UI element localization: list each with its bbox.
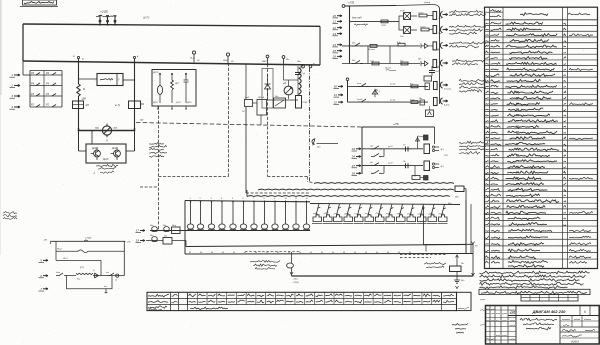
terminal 33 xyxy=(352,147,362,151)
svg-text:дму тмб: дму тмб xyxy=(352,17,362,20)
terminal 37 xyxy=(352,164,362,168)
contact S6 xyxy=(370,162,382,165)
svg-text:блок2: блок2 xyxy=(357,99,363,101)
svg-text:R: R xyxy=(83,87,85,91)
svg-text:(R25): (R25) xyxy=(294,282,299,284)
svg-text:24м: 24м xyxy=(454,196,459,199)
wire row 6 cont xyxy=(66,275,124,277)
connector bar X7 xyxy=(434,98,438,106)
relay box A4 xyxy=(274,95,286,108)
wire return rail xyxy=(186,241,466,247)
svg-text:ю-7у: ю-7у xyxy=(115,105,121,107)
wire coil tail xyxy=(298,94,300,96)
svg-text:(ПУ): (ПУ) xyxy=(80,267,84,269)
connector bar X4 xyxy=(428,42,437,50)
connector bar X1 xyxy=(296,96,309,109)
svg-text:Ш24: Ш24 xyxy=(223,59,228,62)
svg-text:+ПВ: +ПВ xyxy=(43,240,48,242)
svg-text:24в: 24в xyxy=(418,97,422,100)
svg-text:Дп2: Дп2 xyxy=(111,148,117,150)
note box "по 286 включая" xyxy=(20,0,58,7)
wire vertical branch 2 xyxy=(134,62,136,129)
filter block B1 xyxy=(152,70,196,110)
annotation: near 4- xyxy=(444,155,448,157)
svg-text:НО: НО xyxy=(95,127,99,130)
wire row 38 join xyxy=(371,166,384,174)
annotation: set on current xyxy=(424,263,446,268)
node +27V xyxy=(96,10,117,26)
wire bus to cluster xyxy=(23,61,30,75)
svg-text:+27В: +27В xyxy=(348,1,354,5)
svg-text:боч: боч xyxy=(104,286,107,288)
wire row 33 xyxy=(362,148,423,150)
connector out 3 xyxy=(436,42,448,52)
signature scribble xyxy=(452,324,468,334)
svg-text:32: 32 xyxy=(334,100,338,104)
amplifier block U1 xyxy=(79,74,135,86)
label wire dash xyxy=(143,16,150,20)
svg-text:ри-17: ри-17 xyxy=(387,146,394,148)
diode D3 xyxy=(417,58,428,66)
contact K10 xyxy=(106,272,114,276)
label under amplifier xyxy=(93,165,118,175)
block B3 xyxy=(253,96,267,115)
wire line 2 with bump xyxy=(56,249,124,253)
block A6 below xyxy=(426,106,434,117)
svg-text:ри-13: ри-13 xyxy=(389,84,396,86)
terminal 21 xyxy=(332,20,342,24)
wire row 24 xyxy=(342,45,420,47)
terminal 20 xyxy=(332,14,342,18)
wire row 26 xyxy=(342,63,420,65)
contact S4 xyxy=(357,99,369,102)
connector bar X3 xyxy=(429,26,437,34)
connector bar X6 xyxy=(434,82,438,90)
svg-text:24дн: 24дн xyxy=(293,278,299,281)
svg-text:ДВИГАМ 462 230: ДВИГАМ 462 230 xyxy=(532,309,566,314)
svg-text:А2б/1: А2б/1 xyxy=(570,340,579,344)
resistor R12 xyxy=(420,27,429,31)
svg-text:Сф: Сф xyxy=(302,72,306,75)
svg-text:РУ4Т: РУ4Т xyxy=(303,101,309,104)
connector bar X2 xyxy=(427,12,437,20)
svg-text:24 ртд: 24 ртд xyxy=(367,48,376,51)
block A5 xyxy=(424,76,432,81)
svg-text:НЧ-1: НЧ-1 xyxy=(63,258,68,260)
wire box lower xyxy=(67,276,113,289)
terminal 6 xyxy=(39,274,49,278)
relay block A8 xyxy=(424,161,430,171)
svg-text:+ПВ: +ПВ xyxy=(127,242,132,244)
resistor R16 xyxy=(400,61,408,65)
contact K8 xyxy=(287,252,294,268)
wire cluster risers xyxy=(268,65,299,101)
diode riser D7 xyxy=(416,135,429,149)
annotation: switch on generator xyxy=(449,10,486,15)
connector out 5 xyxy=(440,82,451,91)
diode D9 xyxy=(92,270,99,278)
annotation: set current step xyxy=(452,59,485,65)
terminal 32 xyxy=(334,100,344,104)
meter M1 xyxy=(283,80,293,99)
ground xyxy=(454,272,465,289)
diode riser D8 xyxy=(412,166,428,180)
winding wire 2 (wavy) xyxy=(258,188,454,191)
component C7 xyxy=(104,286,108,293)
connector out 1 xyxy=(438,11,448,20)
terminal 17 xyxy=(136,229,146,233)
node Ш3 xyxy=(262,55,269,64)
wire row 18 xyxy=(146,240,186,242)
connector pair out 7 xyxy=(432,146,444,152)
dashed pickup lines xyxy=(245,252,447,258)
wire row 5 xyxy=(56,241,101,275)
title block xyxy=(486,306,600,345)
resistor R18 xyxy=(410,98,418,103)
capacitor C4 xyxy=(401,144,412,151)
relay K3 (lower) xyxy=(400,27,411,39)
node: +27V terminal top right xyxy=(338,5,345,8)
node a (bus terminal) xyxy=(73,55,84,62)
connector out 2 xyxy=(438,26,448,35)
node Ш2 xyxy=(223,53,234,63)
relay block A7 xyxy=(424,144,430,154)
svg-text:37: 37 xyxy=(352,164,356,168)
svg-text:мА: мА xyxy=(283,82,287,85)
svg-text:24г: 24г xyxy=(460,262,464,265)
diode D1 with box xyxy=(262,69,273,109)
svg-text:ри-17: ри-17 xyxy=(387,163,394,165)
wire: dashed jog y176.5 xyxy=(159,176,229,178)
label ri13b xyxy=(389,99,396,101)
wire sub top xyxy=(424,206,475,245)
margin stamp marks xyxy=(480,299,485,325)
wire +27V top right xyxy=(345,1,440,9)
svg-text:33: 33 xyxy=(352,147,356,151)
amplifier A3 xyxy=(86,144,126,163)
wire: long dashed control line PU xyxy=(136,119,362,127)
wire: left edge vertical xyxy=(22,24,24,61)
edge streaks xyxy=(0,0,2,255)
svg-text:ДПФ: ДПФ xyxy=(152,101,158,104)
svg-text:24в: 24в xyxy=(509,310,516,314)
terminal 7 xyxy=(39,287,49,291)
wire row 32 xyxy=(348,101,429,103)
wire vertical branch 1 xyxy=(78,62,80,129)
contact S5 xyxy=(370,145,382,148)
svg-text:31: 31 xyxy=(334,93,338,97)
resistor R10 xyxy=(381,20,388,27)
svg-text:26: 26 xyxy=(332,55,337,59)
connector out 6 xyxy=(440,98,449,107)
terminal 24 xyxy=(332,43,342,47)
capacitor C3 xyxy=(429,66,440,76)
svg-text:4(-): 4(-) xyxy=(441,148,444,151)
wire winding joins xyxy=(247,190,258,197)
terminal 3 xyxy=(10,94,21,98)
terminal 31 xyxy=(334,93,344,97)
resistor R21 xyxy=(450,255,465,272)
terminal 23 xyxy=(332,32,342,36)
terminal 25 xyxy=(332,49,342,53)
svg-text:Пв: Пв xyxy=(403,161,405,163)
annotation small left xyxy=(3,212,17,220)
capacitor C5 xyxy=(403,161,408,168)
svg-text:24: 24 xyxy=(332,43,337,47)
notes text block xyxy=(479,271,590,294)
winding L2 coil xyxy=(299,66,303,94)
diode pair D4 xyxy=(372,89,380,98)
svg-text:щ: щ xyxy=(313,63,315,65)
wire: right edge of outer loop xyxy=(319,26,321,65)
svg-text:ДпФ: ДпФ xyxy=(244,96,250,99)
wire row 34 join xyxy=(371,149,384,157)
svg-text:дбов: дбов xyxy=(56,271,60,274)
wire: dashed jog right group xyxy=(268,177,308,183)
terminal 30 xyxy=(334,85,344,89)
terminal 5 xyxy=(39,259,49,263)
svg-text:17: 17 xyxy=(136,229,140,233)
relay A1 xyxy=(73,101,89,109)
wire right edge sub2 xyxy=(51,241,125,275)
svg-text:4П: 4П xyxy=(86,103,89,107)
wire: dash-dot control riser xyxy=(310,68,315,183)
wire galvanometer to amplifier xyxy=(79,131,122,167)
resistor R22 (PU) xyxy=(76,267,93,281)
terminal 34 xyxy=(352,155,362,159)
annotation: release amplifier xyxy=(149,143,167,158)
svg-text:34: 34 xyxy=(352,155,356,159)
contact K7 xyxy=(149,234,157,241)
svg-text:6: 6 xyxy=(584,310,586,314)
contact S1 xyxy=(351,42,363,46)
wire bottom of branch xyxy=(79,128,135,131)
contact S3 xyxy=(357,83,369,86)
wire: left rail top right xyxy=(345,6,350,64)
label CM xyxy=(81,98,87,101)
band bottom rail with dots xyxy=(185,252,473,254)
wire: dashed jog y187 xyxy=(140,186,159,188)
continuation mini grid xyxy=(521,295,578,302)
svg-text:НЗ: НЗ xyxy=(114,127,118,130)
svg-text:с(два): с(два) xyxy=(424,1,430,4)
winding wire 3 (wavy) xyxy=(247,195,450,198)
terminal 26 xyxy=(332,55,342,59)
annotation: row2 xyxy=(449,25,486,34)
label ri13 xyxy=(389,84,396,86)
pickup contact P2 xyxy=(312,138,338,148)
resistor R13 xyxy=(367,45,377,51)
wire row 37 xyxy=(362,165,423,167)
svg-text:ДПТ: ДПТ xyxy=(174,83,180,85)
svg-text:П: П xyxy=(106,140,108,143)
diode D2 xyxy=(421,43,428,48)
wire: right connector rail xyxy=(439,9,441,105)
label 24M xyxy=(447,196,459,206)
wire: dashed vertical riser 2 xyxy=(267,64,269,177)
relay A2 xyxy=(115,101,144,109)
svg-text:2: 2 xyxy=(10,84,13,88)
node Ш5 xyxy=(297,61,315,68)
annotation: output signals group xyxy=(459,141,488,154)
svg-text:Пв: Пв xyxy=(403,144,405,146)
svg-text:24щ: 24щ xyxy=(171,224,176,227)
node Ш1 xyxy=(190,51,200,62)
wire box verticals 24-26 xyxy=(368,46,390,64)
svg-text:20: 20 xyxy=(332,14,337,18)
contact K6 xyxy=(162,224,169,232)
wire: dashed vertical riser 1 xyxy=(228,63,230,177)
svg-text:Д-12: Д-12 xyxy=(175,102,181,104)
svg-text:ПУ: ПУ xyxy=(140,119,144,122)
svg-text:Шт: Шт xyxy=(297,61,301,63)
relay A9 xyxy=(163,234,172,244)
wire row 30 xyxy=(348,85,429,87)
wire amp sides xyxy=(79,131,135,152)
annotation: working step setting xyxy=(250,261,280,270)
svg-text:+27В: +27В xyxy=(393,124,399,126)
selector contacts group 2 xyxy=(310,204,460,224)
wire sub right edge xyxy=(472,244,479,276)
terminal 1 xyxy=(10,73,21,77)
svg-text:23: 23 xyxy=(332,32,337,36)
terminal 2 xyxy=(10,84,21,88)
node: rail 2 terminal xyxy=(346,78,349,102)
wire: main horizontal bus xyxy=(23,61,320,65)
svg-text:СтР: СтР xyxy=(435,71,440,73)
relay K2 (upper) xyxy=(400,10,411,20)
block B2 xyxy=(244,96,253,107)
terminal 18 xyxy=(136,239,146,243)
svg-text:Ст2б: Ст2б xyxy=(420,27,426,29)
component D6 xyxy=(418,97,425,105)
resistor R20 end of winding xyxy=(455,186,466,201)
svg-text:с ПВф: с ПВф xyxy=(85,237,92,240)
wire +27V rail group 3 xyxy=(362,124,435,174)
selector contacts group 1 xyxy=(150,198,310,231)
svg-text:24з: 24з xyxy=(162,224,166,227)
contact K5 xyxy=(149,224,157,232)
terminal 4 xyxy=(10,105,21,109)
resistor R11 xyxy=(418,13,427,17)
svg-text:Дп1б: Дп1б xyxy=(102,159,109,161)
svg-text:Ст10: Ст10 xyxy=(418,13,424,15)
resistor R17 xyxy=(410,83,418,88)
svg-text:боч: боч xyxy=(106,272,109,274)
svg-text:30: 30 xyxy=(334,85,338,89)
wire: dashed jog y193 xyxy=(246,192,310,194)
svg-text:ДПт4: ДПт4 xyxy=(257,96,265,99)
resistor R14 xyxy=(397,41,405,46)
svg-text:25: 25 xyxy=(332,49,337,53)
wire risers B3 xyxy=(242,64,261,193)
terminal 38 xyxy=(352,172,362,176)
connector bar X5 xyxy=(433,60,437,68)
wire row 20/21 xyxy=(350,17,400,26)
label pr xyxy=(384,67,396,71)
wire: top bus +27V xyxy=(23,24,320,26)
svg-text:22: 22 xyxy=(332,26,337,30)
resistor R15 xyxy=(370,60,379,65)
svg-text:38: 38 xyxy=(352,172,356,176)
svg-text:абв: абв xyxy=(370,145,373,147)
relay contact cluster K1 xyxy=(30,71,62,108)
svg-text:24 рпд: 24 рпд xyxy=(384,67,392,70)
parts list table xyxy=(485,7,598,268)
wire: top line +PVf xyxy=(43,237,131,244)
svg-text:+27В: +27В xyxy=(100,10,108,14)
svg-text:4-4,5с: 4-4,5с xyxy=(444,104,450,107)
connector out 4 xyxy=(436,60,448,70)
terminal 22 xyxy=(332,26,342,30)
band frame xyxy=(185,201,471,255)
connector pair out 8 xyxy=(432,163,444,169)
svg-text:24ж: 24ж xyxy=(149,224,154,227)
svg-text:абг: абг xyxy=(370,162,373,164)
svg-text:Ш4Р: Ш4Р xyxy=(262,60,267,63)
wire: dashed vertical riser from B1 xyxy=(158,106,160,231)
svg-text:21: 21 xyxy=(332,20,337,24)
wire riser dash top xyxy=(425,245,427,252)
svg-text:4(-): 4(-) xyxy=(441,165,444,168)
svg-text:Rш: Rш xyxy=(77,279,80,281)
svg-text:ри-13: ри-13 xyxy=(389,99,396,101)
svg-text:щ(-): щ(-) xyxy=(444,155,448,157)
svg-text:Ш-72: Ш-72 xyxy=(143,16,150,20)
relay A10 xyxy=(171,224,180,234)
label ri17 xyxy=(387,146,394,148)
capacitor C2 xyxy=(295,66,305,80)
wire left end R25 xyxy=(290,268,473,284)
annotation: set weight step xyxy=(449,42,486,48)
node g xyxy=(282,56,290,65)
wire relay branch xyxy=(399,16,417,30)
svg-text:0,5-0,5с: 0,5-0,5с xyxy=(444,89,451,91)
contact K9 xyxy=(56,271,67,276)
resistor R1 xyxy=(77,84,85,96)
contact S2 xyxy=(351,59,363,64)
svg-text:18: 18 xyxy=(136,239,140,243)
winding wire 1 (wavy) xyxy=(314,182,454,185)
node b (bus terminal) xyxy=(133,55,139,62)
galvanometer P1 xyxy=(95,124,117,143)
component D5 xyxy=(422,83,430,90)
capacitor C6 xyxy=(115,274,119,282)
svg-text:24в: 24в xyxy=(417,58,421,61)
annotation: out signals 1 xyxy=(459,79,486,92)
step table xyxy=(147,292,471,310)
label ri17b xyxy=(387,163,394,165)
svg-text:ДПТ2: ДПТ2 xyxy=(152,72,159,74)
